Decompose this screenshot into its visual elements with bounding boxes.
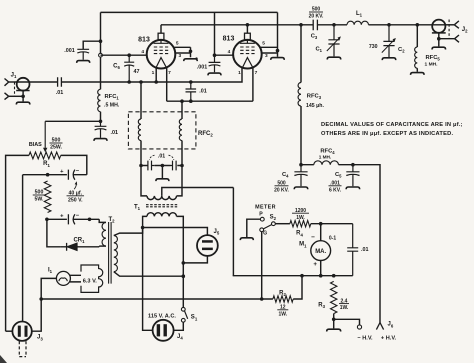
node junction bleeder top <box>46 173 50 177</box>
switch S2 pivot <box>260 228 264 232</box>
svg-text:C2: C2 <box>398 47 405 54</box>
svg-text:T1: T1 <box>134 204 141 211</box>
svg-text:+: + <box>313 261 317 268</box>
node junction bleeder bottom <box>45 218 49 222</box>
wire R4 to meter node <box>311 223 353 225</box>
node junction CT center <box>161 164 165 168</box>
svg-text:1W.: 1W. <box>278 311 287 317</box>
svg-text:.01: .01 <box>56 90 64 96</box>
wire bias box top line <box>23 174 87 176</box>
svg-text:1: 1 <box>152 70 155 76</box>
node junction bias bus J3 <box>39 297 43 301</box>
connector J5 body <box>197 235 218 256</box>
wire CR1 loop left <box>47 219 61 247</box>
svg-text:G: G <box>263 231 267 237</box>
wire R1 wiper <box>44 121 46 148</box>
terminal -HV <box>357 325 361 329</box>
svg-text:1: 1 <box>238 70 241 76</box>
svg-text:C6: C6 <box>113 64 120 71</box>
node blob V1 ground end <box>195 57 197 59</box>
svg-text:.01: .01 <box>158 154 165 160</box>
wire J3 right lead <box>32 299 41 331</box>
svg-text:5: 5 <box>262 41 265 47</box>
svg-text:− H.V.: − H.V. <box>357 336 373 342</box>
svg-text:C5: C5 <box>335 172 342 179</box>
node junction meter top <box>319 222 323 226</box>
svg-text:4: 4 <box>228 49 231 55</box>
capacitor .001 grid V2 <box>209 55 221 72</box>
wire HV line <box>301 165 380 323</box>
svg-text:J6: J6 <box>388 322 394 329</box>
svg-text:20 KV.: 20 KV. <box>274 187 289 193</box>
svg-text:RFC2: RFC2 <box>198 131 213 138</box>
svg-text:J2: J2 <box>462 27 468 34</box>
inductor RFC2 left coil <box>138 119 141 141</box>
connector J4 contacts <box>157 324 160 336</box>
node junction plate bus RFC3 <box>299 23 303 27</box>
node junction J2 ground <box>437 37 441 41</box>
wire tube1 pin7 drop <box>166 68 168 101</box>
connector J1 plug fork upper <box>5 79 9 86</box>
wire filament return line <box>167 100 253 102</box>
wire RFC2 left coil lead <box>140 141 142 166</box>
svg-text:.01: .01 <box>111 130 119 136</box>
wire R3 to -HV <box>334 319 360 325</box>
node junction C2 tap <box>387 23 391 27</box>
wire bias mid line <box>47 218 99 220</box>
resistor R2 <box>273 296 293 302</box>
connector J1 body <box>17 78 30 91</box>
capacitor C2 variable <box>383 25 394 57</box>
wire J2 center lead <box>445 24 454 26</box>
node junction meter bus R2 <box>300 274 304 278</box>
wire RFC1 bias lead <box>45 112 100 122</box>
svg-text:3: 3 <box>178 53 181 59</box>
node junction J5 return <box>182 261 186 265</box>
svg-text:J1: J1 <box>11 73 17 80</box>
wire J5 bottom lead <box>183 256 207 263</box>
resistor R3 <box>331 281 337 313</box>
capacitor 40uf lower electrolytic <box>68 214 75 224</box>
capacitor .01 RFC1 bypass <box>95 121 107 138</box>
capacitor C5 <box>346 165 359 187</box>
svg-text:.01: .01 <box>361 247 369 253</box>
node junction tube2 screen <box>276 49 280 53</box>
node junction tube1 pin1 <box>154 80 158 84</box>
connector J1 plug fork lower <box>5 93 9 100</box>
scan smudge corner <box>0 355 7 363</box>
transformer T1 core <box>146 205 177 207</box>
svg-text:J5: J5 <box>214 229 220 236</box>
wire P to ground <box>247 219 261 237</box>
connector J5 contacts <box>202 240 213 243</box>
wire input line J1 to tube2 cathode <box>15 68 243 82</box>
wire filament CT line <box>141 165 182 167</box>
ground .001 V1 <box>77 61 90 63</box>
resistor 500 5W bleeder <box>44 181 51 213</box>
inductor RFC2 right coil <box>179 119 182 141</box>
wire RFC2 right coil lead <box>181 141 183 166</box>
tube 813 V2 <box>233 40 262 69</box>
capacitor 40uf upper electrolytic <box>68 170 75 180</box>
ground meter P <box>240 238 253 240</box>
connector J1 mating dashed <box>14 82 16 96</box>
wire bias bus <box>41 298 273 300</box>
svg-text:7: 7 <box>255 70 258 76</box>
connector J1 shell bar <box>16 90 29 92</box>
svg-text:3: 3 <box>265 53 268 59</box>
svg-text:.01: .01 <box>199 89 207 95</box>
connector J2 shell bar <box>432 32 446 34</box>
wire R3 bottom <box>333 314 335 329</box>
ground R3 <box>327 329 341 331</box>
switch S1 top contact <box>181 307 185 311</box>
wire meter bus <box>233 275 353 277</box>
wire tube1 pin1 riser <box>155 68 157 82</box>
node junction C6 bottom <box>127 80 131 84</box>
node junction V1 screen <box>189 50 193 54</box>
wire T1 CT drop to meter bus <box>232 188 234 276</box>
svg-text:J3: J3 <box>37 335 43 342</box>
svg-text:BIAS: BIAS <box>29 142 42 148</box>
node junction filament bypass bottom <box>189 99 193 103</box>
svg-text:MA.: MA. <box>315 249 326 255</box>
node junction CT left <box>139 164 143 168</box>
switch S1 bottom contact <box>181 318 185 322</box>
ground J2 <box>432 47 446 49</box>
capacitor C4 <box>294 165 307 187</box>
wire I1 leads to plug <box>70 275 81 282</box>
wire grid line tube2 <box>215 54 234 56</box>
wire J3 top lead <box>22 175 24 322</box>
switch S2 blade <box>263 225 271 229</box>
capacitor C3 <box>313 20 317 31</box>
svg-text:I1: I1 <box>48 268 53 275</box>
wire R1 left lead <box>6 155 29 331</box>
svg-text:5: 5 <box>176 41 179 47</box>
capacitor C6 <box>124 55 134 82</box>
capacitor .01 pair left <box>148 161 155 171</box>
connector J3 contacts <box>18 326 21 337</box>
svg-text:.001: .001 <box>197 65 208 71</box>
wire RFC2 right drop <box>181 101 183 119</box>
wire R1 right lead <box>61 155 87 174</box>
wire J2 ground stem <box>438 33 440 47</box>
node junction RFC3 C4 <box>299 163 303 167</box>
node junction C1 tap <box>332 23 336 27</box>
wire V2 screen leads <box>260 47 278 53</box>
node junction S2 bias bus <box>260 297 264 301</box>
wire grid bypass stub V1 <box>83 41 100 49</box>
wire RFC2 left drop <box>140 82 142 119</box>
connector J6 plug fork <box>376 323 383 330</box>
svg-text:6.3 V.: 6.3 V. <box>83 278 98 284</box>
svg-text:S1: S1 <box>191 315 198 322</box>
node junction plate bus tube2 <box>246 23 250 27</box>
ground RFC5 <box>411 73 425 75</box>
svg-text:7: 7 <box>168 70 171 76</box>
capacitor .001 grid V1 <box>77 49 89 60</box>
svg-text:C4: C4 <box>282 172 289 179</box>
svg-text:5W.: 5W. <box>35 197 44 203</box>
wire J1 shell link <box>9 95 23 97</box>
resistor R4 <box>290 221 311 227</box>
capacitor .01 meter <box>347 224 358 276</box>
svg-text:0-1: 0-1 <box>329 236 336 242</box>
inductor RFC3 <box>300 25 302 83</box>
wire grid top bus <box>101 11 278 13</box>
ground filament CT <box>156 179 169 181</box>
node junction T2 sec top <box>88 218 92 222</box>
wire S1 to J4 <box>174 322 184 330</box>
svg-text:6 KV.: 6 KV. <box>329 187 342 193</box>
switch S2 contact right <box>272 222 276 226</box>
wire CT ground stem <box>161 166 163 179</box>
wire tube1 grid bus vertical <box>100 12 102 89</box>
ground C4 <box>294 187 308 189</box>
svg-text:4: 4 <box>141 49 144 55</box>
svg-text:+ H.V.: + H.V. <box>381 336 397 342</box>
ground RFC1 bypass <box>94 139 107 141</box>
capacitor .01 pair right <box>171 161 177 171</box>
capacitor .01 filament <box>186 82 197 101</box>
connector J2 plug fork lower <box>455 35 459 42</box>
meter M1 body <box>311 241 331 261</box>
node junction C6 top <box>127 53 131 57</box>
svg-text:813: 813 <box>138 36 150 43</box>
transformer T2 primary <box>114 228 143 236</box>
svg-text:OTHERS ARE IN μμf. EXCEPT AS I: OTHERS ARE IN μμf. EXCEPT AS INDICATED. <box>321 131 453 137</box>
wire J1 ground stem <box>22 91 24 102</box>
svg-text:J4: J4 <box>177 334 183 341</box>
ground C2 <box>382 58 396 60</box>
inductor RFC1 <box>98 89 101 111</box>
svg-text:DECIMAL VALUES OF CAPACITANCE: DECIMAL VALUES OF CAPACITANCE ARE IN μf.… <box>321 122 463 128</box>
ground C5 <box>346 187 360 189</box>
wire CR1 to T2 <box>98 245 100 248</box>
node junction grid bypass V1 <box>99 39 103 43</box>
transformer T1 primary <box>147 213 177 217</box>
connector J2 plug fork upper <box>454 21 459 28</box>
svg-text:R2: R2 <box>279 290 286 297</box>
wire tube2 plate riser <box>246 25 248 33</box>
connector 6.3V plug with T2 winding <box>81 265 103 292</box>
wire plate bus <box>161 24 313 26</box>
wire V1 screen leads <box>174 47 191 57</box>
wire meter top lead <box>320 224 322 241</box>
node junction RFC2 right drop <box>180 99 184 103</box>
connector J4 body <box>153 320 174 341</box>
switch S1 blade <box>184 311 187 319</box>
svg-text:R4: R4 <box>296 231 303 238</box>
wire R2 riser <box>293 276 302 299</box>
svg-text:RFC5: RFC5 <box>426 55 441 62</box>
node junction T1 primary left <box>141 226 145 230</box>
wire tube2 pin7 drop <box>252 68 254 101</box>
wire S2 to R4 <box>275 223 290 225</box>
svg-text:R3: R3 <box>318 302 325 309</box>
node junction RFC2 left top <box>139 80 143 84</box>
wire tube2 screen drop right <box>277 12 279 56</box>
node junction meter bus M1 <box>319 274 323 278</box>
transformer T2 secondary top <box>99 219 106 222</box>
svg-text:C3: C3 <box>311 33 318 40</box>
svg-text:20 KV.: 20 KV. <box>309 14 324 20</box>
wire T1 CT to J5 line <box>162 188 234 196</box>
svg-text:RFC1: RFC1 <box>105 94 120 101</box>
node junction R3 bottom <box>332 318 336 322</box>
ground J1 <box>16 102 30 104</box>
svg-text:1 MH.: 1 MH. <box>425 61 439 67</box>
svg-text:47: 47 <box>134 69 140 75</box>
wire J2 shell link <box>439 38 455 40</box>
capacitor C1 variable <box>328 25 339 57</box>
svg-text:1 MH.: 1 MH. <box>319 155 332 160</box>
svg-text:25W.: 25W. <box>50 145 62 151</box>
svg-text:P: P <box>259 212 263 218</box>
node junction RFC5 tap <box>416 23 420 27</box>
svg-text:M1: M1 <box>299 242 307 249</box>
node junction T2 primary bottom <box>182 274 186 278</box>
wire J3 left lead <box>6 330 13 332</box>
ground .001 V2 <box>208 73 221 75</box>
wire tube1 plate riser <box>160 25 162 33</box>
wire I1 left lead <box>41 278 56 299</box>
svg-text:R1: R1 <box>43 161 50 168</box>
tube 813 V1 <box>147 40 176 69</box>
svg-text:L1: L1 <box>356 11 363 18</box>
svg-text:145 μh.: 145 μh. <box>306 103 324 109</box>
inductor RFC4 <box>314 161 339 165</box>
wire tank line <box>317 24 445 26</box>
svg-text:115 V. A.C.: 115 V. A.C. <box>148 313 176 319</box>
node junction C5 tap <box>351 163 355 167</box>
capacitor .01 input <box>58 77 62 86</box>
transformer T2 core <box>109 222 112 284</box>
node junction RFC1 bypass <box>99 120 103 124</box>
node junction CT right <box>180 164 184 168</box>
wire J5 top lead <box>143 228 208 236</box>
label .01 pair callout arcs <box>150 155 174 160</box>
svg-text:C1: C1 <box>315 46 322 53</box>
wire grid line tube1 <box>101 54 147 56</box>
svg-text:.001: .001 <box>64 48 75 54</box>
svg-text:.5 MH.: .5 MH. <box>104 103 120 109</box>
wire J1 center lead <box>9 81 15 83</box>
node junction J1 ground <box>21 95 25 99</box>
ground V2 screen <box>271 58 285 60</box>
node junction meter bus R3 <box>332 274 336 278</box>
svg-text:RFC3: RFC3 <box>307 93 322 100</box>
svg-text:250 V.: 250 V. <box>68 197 83 203</box>
svg-text:−: − <box>311 234 315 241</box>
label 40uf arrow <box>74 183 76 190</box>
svg-text:1W.: 1W. <box>340 305 349 311</box>
inductor L1 <box>347 21 369 25</box>
svg-text:S2: S2 <box>270 214 277 221</box>
shield box RFC2 dashed <box>128 112 196 149</box>
svg-text:813: 813 <box>223 35 235 42</box>
connector J2 mating dashed <box>448 20 450 39</box>
svg-text:T2: T2 <box>108 217 115 224</box>
node junction tube2 grid <box>213 53 217 57</box>
ground C1 <box>327 57 341 59</box>
connector J2 body <box>432 20 445 33</box>
lamp I1 <box>56 271 70 285</box>
diode CR1 <box>67 243 78 251</box>
switch S2 contact P <box>260 217 264 221</box>
wire S2 pivot drop <box>261 232 263 299</box>
ground V1 screen <box>184 59 198 61</box>
svg-text:1W.: 1W. <box>296 215 305 221</box>
connector J3 body <box>12 322 31 341</box>
node open-circle junction grid line V1 <box>99 53 103 57</box>
resistor R1 <box>29 152 61 159</box>
inductor RFC5 <box>416 25 418 47</box>
wire tube2 grid drop <box>214 12 216 55</box>
svg-text:730: 730 <box>369 44 378 50</box>
svg-text:METER: METER <box>255 205 276 211</box>
wire meter bottom lead <box>320 261 322 276</box>
connector J3 cable dashed <box>19 341 26 356</box>
transformer T1 secondary <box>141 166 147 196</box>
svg-text:CR1: CR1 <box>73 237 85 244</box>
node junction filament bypass top <box>189 80 193 84</box>
